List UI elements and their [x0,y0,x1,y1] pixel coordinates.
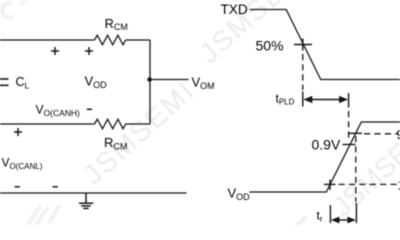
wire VOM stub [150,79,189,81]
plus sign top left [51,50,59,52]
svg-text:50%: 50% [256,38,284,54]
plus sign top right [85,50,93,52]
svg-text:VOM: VOM [192,75,215,92]
tr arrow shaft [338,219,349,221]
tr left bar [329,205,331,223]
tPLD arrowheads [303,96,312,103]
watermark small fragment bottom-center [296,217,306,226]
resistor RCM bottom [95,119,126,129]
tick 90% cross [349,132,362,134]
watermark W5 top-left fragment [2,3,13,18]
wire top right [126,39,150,41]
svg-text:90%: 90% [397,127,400,142]
dashed 10% level [339,183,398,185]
dashed 90% level [364,133,398,135]
tPLD right bar [348,93,350,108]
watermark background texts [77,0,317,190]
VOD waveform [249,122,400,192]
svg-text:tPLD: tPLD [276,92,295,107]
tick 0.9V cross [343,144,356,146]
minus sign VOD [87,108,92,110]
svg-text:VO(CANH): VO(CANH) [36,103,81,119]
capacitor CL plates [0,78,9,80]
tPLD left bar [302,92,304,107]
wire ground rail [0,192,187,194]
wire bottom right [126,123,150,125]
tr arrowheads [331,217,340,224]
TXD waveform [250,10,400,80]
minus sign gnd left [15,186,20,188]
minus sign gnd mid [53,186,58,188]
plus sign CANL [14,131,22,133]
dashed drop from 90% to tr bar [355,136,357,202]
svg-text:VOD: VOD [85,74,108,91]
svg-text:0.9V: 0.9V [312,137,341,153]
dashed drop to 0.9V [348,111,350,141]
wire CANH top [0,39,95,41]
resistor RCM top [95,35,126,45]
svg-text:tr: tr [317,209,323,224]
tPLD arrow shaft [311,99,341,101]
svg-text:VO(CANL): VO(CANL) [2,156,43,172]
svg-text:CL: CL [16,75,30,91]
ground symbol [85,193,87,203]
tick 10% cross [324,183,336,185]
watermark W4 bottom-left fragment [27,205,41,226]
svg-text:RCM: RCM [105,16,128,32]
svg-text:JSMSEMI: JSMSEMI [77,75,201,191]
tr right bar [355,203,357,223]
wire CANL [0,123,95,125]
polarity marks [14,47,93,187]
tick 50% cross [294,44,312,46]
svg-text:TXD: TXD [221,2,248,17]
svg-text:VOD: VOD [228,186,251,203]
dashed drop from 50% [302,54,304,90]
node junction dot [147,77,152,82]
wire right vertical [149,40,151,124]
